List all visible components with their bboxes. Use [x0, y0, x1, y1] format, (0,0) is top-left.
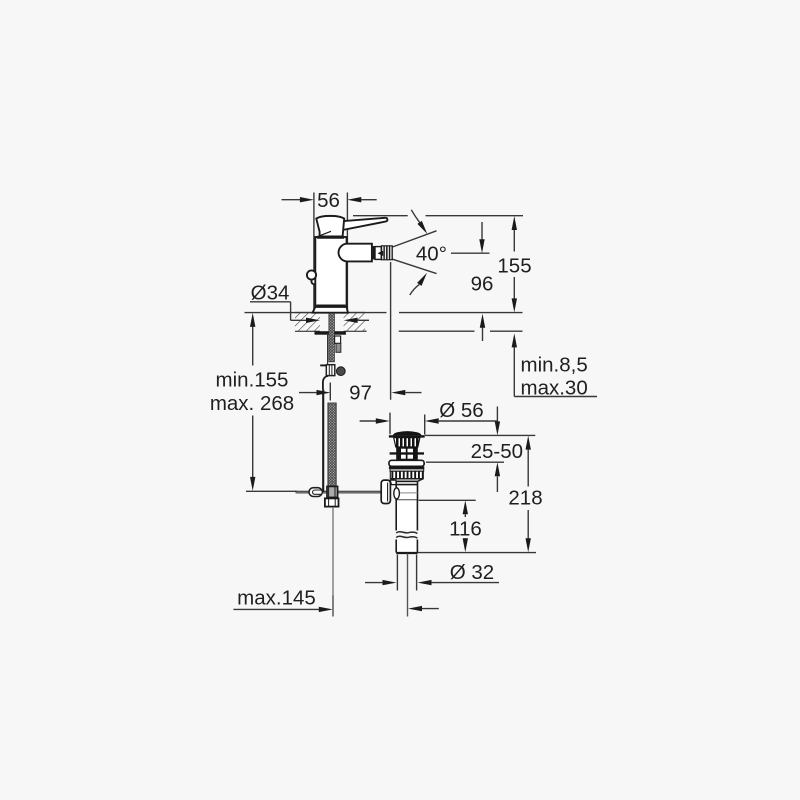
svg-text:155: 155: [497, 255, 531, 278]
svg-text:116: 116: [449, 518, 482, 541]
svg-text:Ø34: Ø34: [251, 282, 290, 305]
svg-text:56: 56: [317, 189, 340, 212]
svg-text:max.30: max.30: [521, 377, 588, 400]
svg-text:218: 218: [508, 487, 542, 510]
svg-text:max.145: max.145: [237, 586, 316, 609]
svg-text:96: 96: [471, 273, 494, 296]
svg-text:max. 268: max. 268: [210, 392, 294, 415]
svg-text:25-50: 25-50: [471, 440, 523, 463]
svg-text:40°: 40°: [416, 242, 447, 265]
svg-text:min.8,5: min.8,5: [521, 354, 588, 377]
svg-text:min.155: min.155: [216, 369, 289, 392]
svg-text:Ø 32: Ø 32: [450, 561, 494, 584]
svg-text:Ø 56: Ø 56: [439, 399, 483, 422]
svg-text:97: 97: [349, 382, 372, 405]
